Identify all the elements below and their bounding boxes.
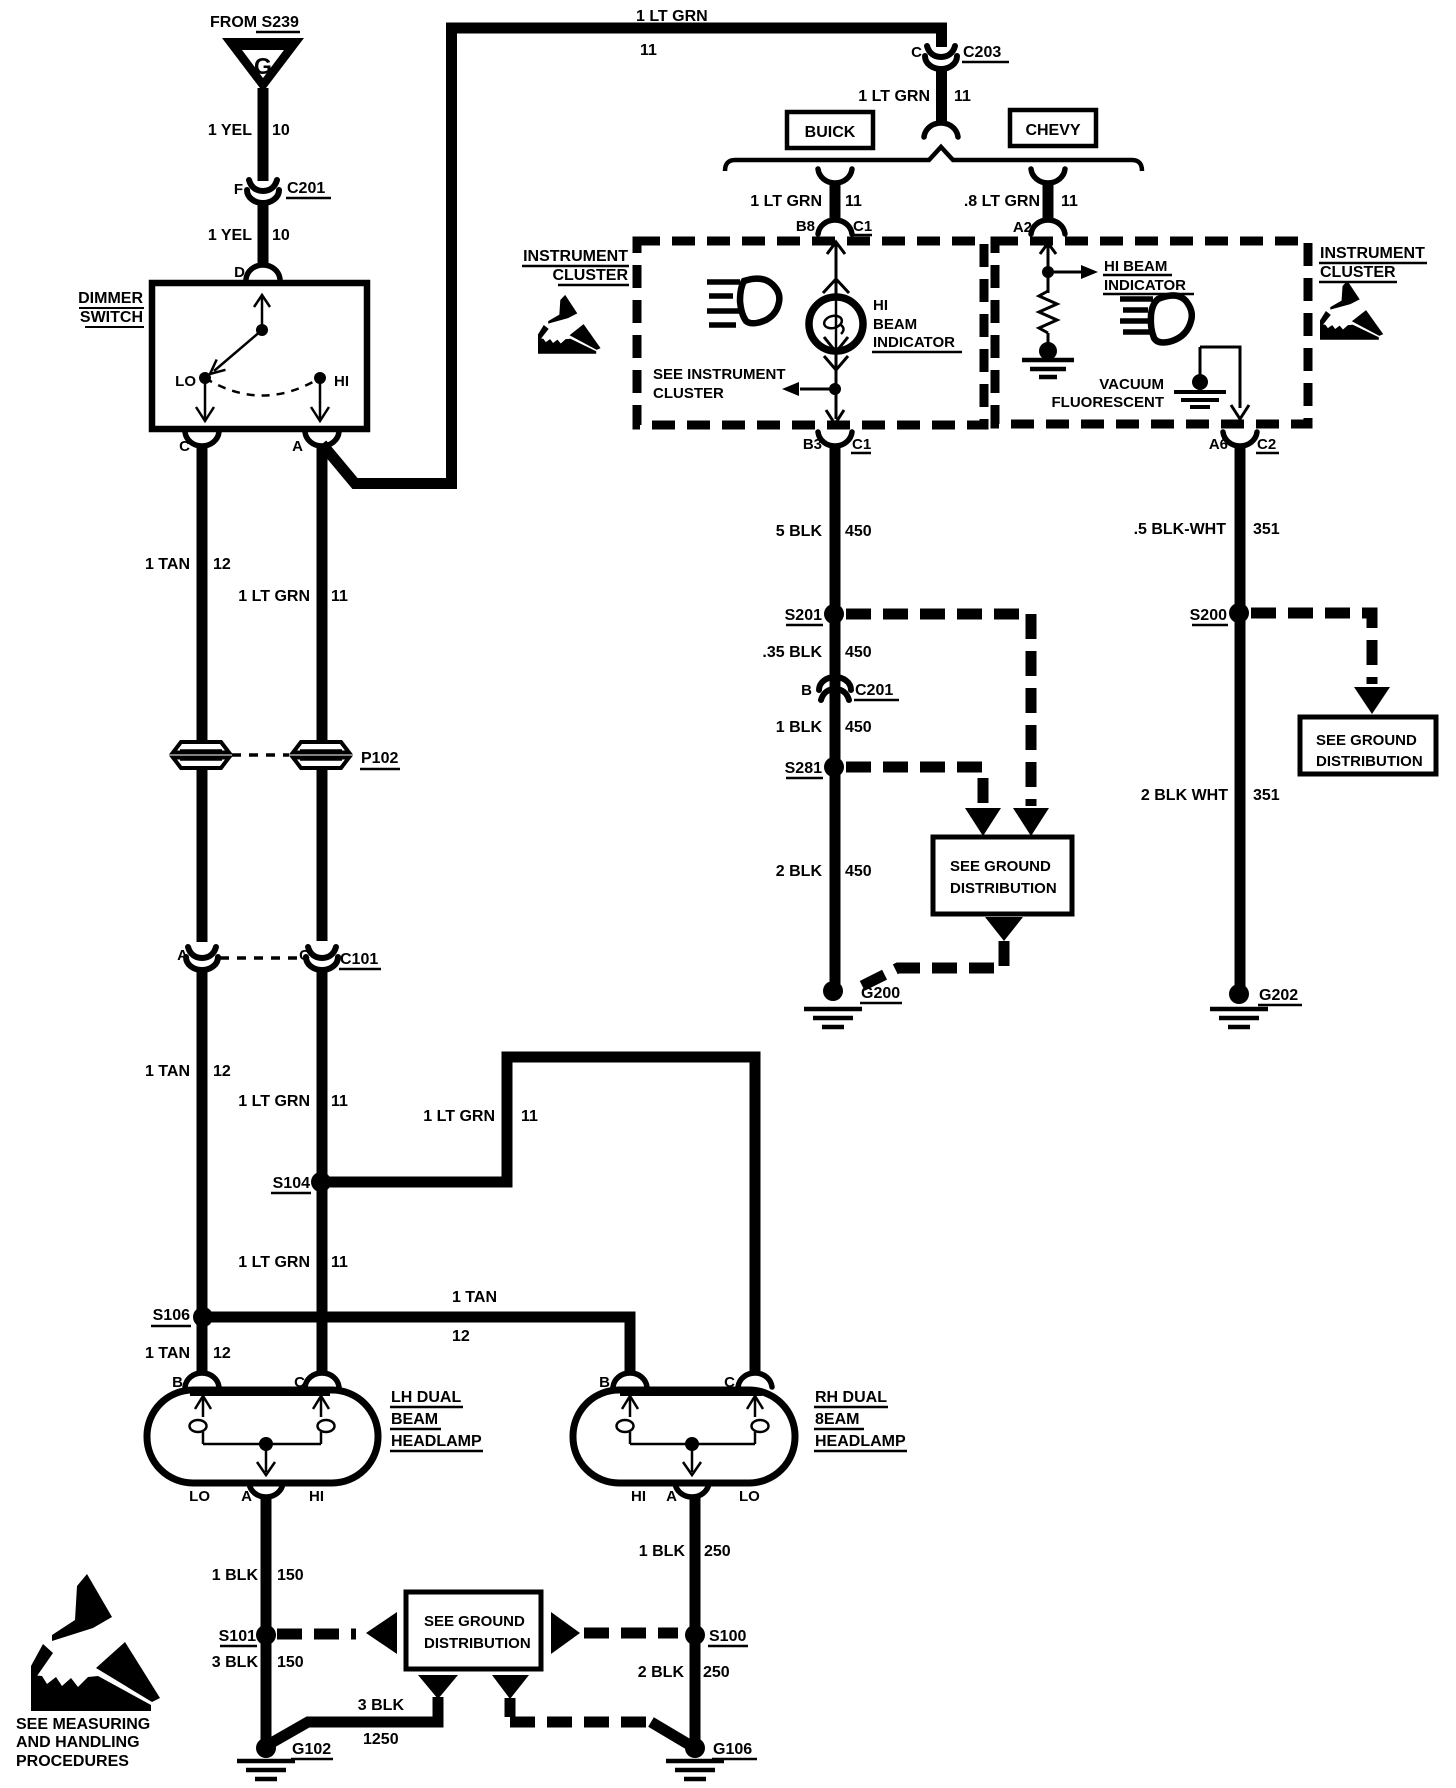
svg-text:150: 150 — [277, 1654, 304, 1671]
svg-text:C1: C1 — [852, 436, 871, 453]
svg-text:G: G — [254, 53, 272, 79]
svg-text:S101: S101 — [219, 1628, 256, 1645]
svg-text:HI: HI — [873, 297, 888, 314]
svg-text:C: C — [724, 1374, 735, 1391]
svg-text:C2: C2 — [1257, 436, 1276, 453]
svg-text:8EAM: 8EAM — [815, 1411, 859, 1428]
svg-text:HI BEAM: HI BEAM — [1104, 258, 1167, 275]
svg-text:INSTRUMENT: INSTRUMENT — [523, 248, 628, 265]
svg-text:P102: P102 — [361, 750, 398, 767]
svg-text:250: 250 — [704, 1543, 731, 1560]
svg-text:G202: G202 — [1259, 987, 1298, 1004]
svg-text:351: 351 — [1253, 521, 1280, 538]
svg-text:SWITCH: SWITCH — [80, 309, 143, 326]
svg-text:C203: C203 — [963, 44, 1001, 61]
svg-text:2 BLK WHT: 2 BLK WHT — [1141, 787, 1228, 804]
svg-text:DISTRIBUTION: DISTRIBUTION — [1316, 753, 1423, 770]
svg-text:RH DUAL: RH DUAL — [815, 1389, 887, 1406]
svg-text:LO: LO — [739, 1488, 760, 1505]
svg-text:1 TAN: 1 TAN — [145, 1345, 190, 1362]
svg-text:12: 12 — [452, 1328, 470, 1345]
svg-text:SEE MEASURING: SEE MEASURING — [16, 1716, 150, 1733]
svg-text:11: 11 — [331, 588, 348, 605]
svg-text:PROCEDURES: PROCEDURES — [16, 1753, 129, 1770]
svg-text:1 LT GRN: 1 LT GRN — [423, 1108, 495, 1125]
svg-text:C201: C201 — [855, 682, 893, 699]
svg-text:SEE GROUND: SEE GROUND — [1316, 732, 1417, 749]
svg-text:2 BLK: 2 BLK — [638, 1664, 685, 1681]
svg-text:F: F — [234, 181, 243, 198]
svg-text:C101: C101 — [340, 951, 378, 968]
svg-text:CHEVY: CHEVY — [1025, 122, 1080, 139]
svg-text:SEE GROUND: SEE GROUND — [950, 858, 1051, 875]
svg-text:AND HANDLING: AND HANDLING — [16, 1734, 140, 1751]
svg-text:3 BLK: 3 BLK — [358, 1697, 405, 1714]
svg-text:1 LT GRN: 1 LT GRN — [750, 193, 822, 210]
svg-text:351: 351 — [1253, 787, 1280, 804]
svg-text:1 LT GRN: 1 LT GRN — [238, 588, 310, 605]
svg-text:A: A — [292, 438, 303, 455]
svg-text:C: C — [299, 947, 310, 964]
svg-text:450: 450 — [845, 523, 872, 540]
svg-text:11: 11 — [331, 1254, 348, 1271]
svg-text:1 TAN: 1 TAN — [452, 1289, 497, 1306]
svg-text:DISTRIBUTION: DISTRIBUTION — [424, 1635, 531, 1652]
svg-text:11: 11 — [640, 42, 657, 59]
svg-text:1 TAN: 1 TAN — [145, 1063, 190, 1080]
svg-text:G200: G200 — [861, 985, 900, 1002]
svg-text:D: D — [234, 264, 245, 281]
svg-text:150: 150 — [277, 1567, 304, 1584]
svg-text:SEE INSTRUMENT: SEE INSTRUMENT — [653, 366, 786, 383]
svg-text:HI: HI — [631, 1488, 646, 1505]
svg-text:1 TAN: 1 TAN — [145, 556, 190, 573]
svg-text:10: 10 — [272, 122, 290, 139]
svg-text:.5 BLK-WHT: .5 BLK-WHT — [1134, 521, 1227, 538]
svg-text:A6: A6 — [1209, 436, 1228, 453]
svg-text:VACUUM: VACUUM — [1099, 376, 1164, 393]
svg-text:C201: C201 — [287, 180, 325, 197]
svg-text:BUICK: BUICK — [805, 124, 856, 141]
svg-text:1 BLK: 1 BLK — [776, 719, 823, 736]
svg-text:HI: HI — [334, 373, 349, 390]
svg-text:S200: S200 — [1190, 607, 1227, 624]
svg-text:BEAM: BEAM — [873, 316, 917, 333]
svg-text:HEADLAMP: HEADLAMP — [391, 1433, 482, 1450]
svg-text:HEADLAMP: HEADLAMP — [815, 1433, 906, 1450]
svg-text:INSTRUMENT: INSTRUMENT — [1320, 245, 1425, 262]
svg-text:5 BLK: 5 BLK — [776, 523, 823, 540]
svg-text:LO: LO — [189, 1488, 210, 1505]
svg-text:11: 11 — [954, 88, 971, 105]
svg-text:S201: S201 — [785, 607, 822, 624]
svg-text:LO: LO — [175, 373, 196, 390]
svg-text:A: A — [177, 947, 188, 964]
svg-text:B8: B8 — [796, 218, 815, 235]
svg-text:11: 11 — [331, 1093, 348, 1110]
svg-text:12: 12 — [213, 1063, 231, 1080]
svg-text:12: 12 — [213, 1345, 231, 1362]
svg-text:10: 10 — [272, 227, 290, 244]
svg-text:A2: A2 — [1013, 219, 1032, 236]
svg-text:1 LT GRN: 1 LT GRN — [238, 1254, 310, 1271]
svg-text:3 BLK: 3 BLK — [212, 1654, 259, 1671]
svg-text:.35 BLK: .35 BLK — [762, 644, 822, 661]
svg-text:INDICATOR: INDICATOR — [873, 334, 955, 351]
svg-text:FLUORESCENT: FLUORESCENT — [1052, 394, 1165, 411]
svg-text:A: A — [666, 1488, 677, 1505]
svg-text:S106: S106 — [153, 1307, 190, 1324]
svg-text:12: 12 — [213, 556, 231, 573]
svg-text:C: C — [179, 438, 190, 455]
svg-text:1 BLK: 1 BLK — [639, 1543, 686, 1560]
svg-text:C: C — [294, 1374, 305, 1391]
svg-text:BEAM: BEAM — [391, 1411, 438, 1428]
svg-text:250: 250 — [703, 1664, 730, 1681]
svg-text:SEE GROUND: SEE GROUND — [424, 1613, 525, 1630]
svg-text:CLUSTER: CLUSTER — [653, 385, 724, 402]
svg-text:1 LT GRN: 1 LT GRN — [858, 88, 930, 105]
svg-text:C1: C1 — [853, 218, 872, 235]
svg-text:.8 LT GRN: .8 LT GRN — [964, 193, 1040, 210]
svg-text:1 YEL: 1 YEL — [208, 227, 252, 244]
svg-text:11: 11 — [1061, 193, 1078, 210]
svg-text:C: C — [911, 44, 922, 61]
svg-text:2 BLK: 2 BLK — [776, 863, 823, 880]
svg-text:450: 450 — [845, 863, 872, 880]
svg-text:HI: HI — [309, 1488, 324, 1505]
svg-text:INDICATOR: INDICATOR — [1104, 277, 1186, 294]
svg-text:B: B — [599, 1374, 610, 1391]
svg-text:1 LT GRN: 1 LT GRN — [238, 1093, 310, 1110]
svg-text:1 LT GRN: 1 LT GRN — [636, 8, 708, 25]
svg-text:G106: G106 — [713, 1741, 752, 1758]
svg-text:1 YEL: 1 YEL — [208, 122, 252, 139]
svg-text:FROM S239: FROM S239 — [210, 14, 299, 31]
svg-text:S281: S281 — [785, 760, 822, 777]
svg-text:B: B — [801, 682, 812, 699]
svg-text:B3: B3 — [803, 436, 822, 453]
svg-text:LH DUAL: LH DUAL — [391, 1389, 461, 1406]
svg-text:CLUSTER: CLUSTER — [552, 267, 628, 284]
svg-text:DISTRIBUTION: DISTRIBUTION — [950, 880, 1057, 897]
svg-text:CLUSTER: CLUSTER — [1320, 264, 1396, 281]
svg-text:1 BLK: 1 BLK — [212, 1567, 259, 1584]
svg-text:1250: 1250 — [363, 1731, 399, 1748]
svg-text:450: 450 — [845, 644, 872, 661]
svg-text:S104: S104 — [273, 1175, 310, 1192]
svg-text:A: A — [241, 1488, 252, 1505]
svg-text:S100: S100 — [709, 1628, 746, 1645]
svg-text:11: 11 — [521, 1108, 538, 1125]
svg-text:DIMMER: DIMMER — [78, 290, 143, 307]
svg-text:11: 11 — [845, 193, 862, 210]
svg-text:450: 450 — [845, 719, 872, 736]
svg-text:B: B — [172, 1374, 183, 1391]
svg-text:G102: G102 — [292, 1741, 331, 1758]
